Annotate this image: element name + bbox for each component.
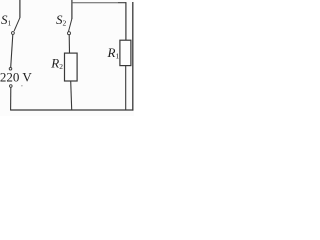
- source terminal (lower): [10, 85, 13, 88]
- wire (top bus, faint left part): [72, 2, 118, 4]
- speck (scan noise next to V): [21, 85, 22, 86]
- wire (middle branch, top segment): [71, 0, 73, 19]
- switch S2 contact circle: [68, 32, 71, 35]
- wire (right branch, bottom segment): [125, 66, 127, 110]
- wire (bottom bus): [10, 109, 133, 111]
- wire (middle branch, bottom segment): [71, 81, 72, 110]
- wire (left branch, middle segment): [11, 35, 13, 68]
- switch S2 blade: [69, 19, 72, 32]
- frame border (right edge of figure): [132, 2, 134, 111]
- wire (top bus, right part): [118, 2, 126, 4]
- switch S1 blade: [14, 17, 20, 31]
- wire (right branch, top segment): [125, 2, 127, 40]
- svg-text:220 V: 220 V: [0, 69, 32, 84]
- wire (left branch, top segment): [19, 0, 21, 18]
- resistor R1: [120, 40, 131, 65]
- switch S1 contact circle: [12, 32, 15, 35]
- resistor R2: [65, 53, 78, 81]
- wire (middle branch, between S2 and R2): [68, 35, 70, 53]
- source terminal (upper): [9, 68, 12, 71]
- wire (left branch, bottom segment): [10, 87, 12, 110]
